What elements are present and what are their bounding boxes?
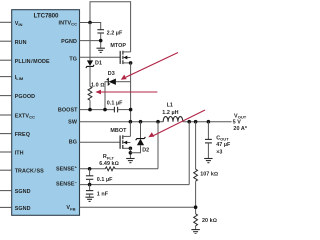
pin BG label bbox=[69, 140, 77, 146]
wire INTVCC net bbox=[80, 2, 131, 52]
svg-text:ILIM: ILIM bbox=[15, 75, 24, 81]
wire VFB net bbox=[80, 206, 196, 208]
svg-text:LTC7800: LTC7800 bbox=[34, 13, 59, 20]
annotation arrow to D3 bbox=[121, 53, 178, 80]
svg-text:RFLT: RFLT bbox=[103, 154, 115, 160]
svg-text:6.49 kΩ: 6.49 kΩ bbox=[99, 161, 118, 167]
node boost cap junction bbox=[129, 108, 133, 112]
node VFB junction bbox=[194, 205, 198, 209]
node VOUT-COUT junction bbox=[207, 120, 211, 124]
pin RUN label bbox=[15, 40, 27, 46]
svg-text:PGND: PGND bbox=[61, 39, 77, 45]
wire SENSE+ net bbox=[80, 122, 159, 169]
node SENSE+ cap junction bbox=[88, 167, 92, 171]
pin PGOOD label bbox=[15, 94, 35, 100]
svg-text:INTVCC: INTVCC bbox=[59, 20, 78, 26]
svg-text:D2: D2 bbox=[142, 148, 149, 154]
resistor 107k bbox=[194, 122, 218, 214]
wire VOUT rail bbox=[183, 121, 232, 123]
node BOOST-1ohm junction bbox=[88, 108, 92, 112]
node BOOST-D3 junction bbox=[103, 108, 107, 112]
capacitor 0.1uF boost bbox=[107, 100, 131, 112]
wire BG net bbox=[80, 141, 121, 143]
pin INTVCC label bbox=[59, 20, 78, 26]
wire ITH stub bbox=[0, 151, 12, 153]
node MTOP source junction bbox=[129, 61, 133, 65]
svg-text:0.1 µF: 0.1 µF bbox=[97, 177, 113, 183]
wire SENSE- net bbox=[80, 122, 190, 185]
svg-text:RUN: RUN bbox=[15, 40, 27, 46]
svg-text:FREQ: FREQ bbox=[15, 132, 30, 138]
resistor 20k bbox=[194, 214, 217, 230]
wire TG net bbox=[80, 56, 121, 58]
svg-text:1.2 µH: 1.2 µH bbox=[162, 110, 178, 116]
node PGND junction bbox=[99, 39, 103, 43]
capacitor 0.1uF sense bbox=[86, 169, 113, 185]
ground under MBOT bbox=[126, 159, 134, 163]
wire MBOT source to ground bbox=[129, 148, 131, 158]
resistor RFLT 6.49k bbox=[99, 154, 118, 171]
pin ITH label bbox=[15, 151, 24, 157]
node VOUT-divider junction bbox=[194, 120, 198, 124]
pin BOOST label bbox=[58, 108, 78, 114]
svg-text:MBOT: MBOT bbox=[110, 128, 127, 134]
node SW-SENSE+ junction bbox=[156, 120, 160, 124]
ground under COUT bbox=[204, 159, 212, 163]
wire EXTVCC stub bbox=[0, 114, 12, 116]
wire ILIM stub bbox=[0, 76, 12, 78]
annotation arrow to 1.0 Ohm bbox=[95, 90, 157, 94]
diode D1 bbox=[86, 23, 102, 87]
svg-text:EXTVCC: EXTVCC bbox=[15, 114, 35, 120]
svg-text:PLLIN/MODE: PLLIN/MODE bbox=[15, 59, 50, 65]
svg-text:20 A*: 20 A* bbox=[233, 126, 248, 132]
wire SGND2 stub bbox=[0, 206, 12, 208]
pin TRACK/SS label bbox=[15, 169, 44, 175]
capacitor COUT bbox=[205, 122, 231, 159]
svg-text:ITH: ITH bbox=[15, 151, 24, 157]
pin SENSE- label bbox=[56, 180, 78, 188]
wire SGND stub bbox=[0, 190, 12, 192]
svg-text:VFB: VFB bbox=[66, 205, 75, 211]
wire SW net bbox=[80, 121, 164, 123]
pin PGND label bbox=[61, 39, 77, 45]
node VOUT-SENSE- junction bbox=[187, 120, 191, 124]
pin PLLIN/MODE label bbox=[15, 59, 50, 65]
svg-text:1 nF: 1 nF bbox=[97, 191, 109, 197]
capacitor 2.2uF bbox=[97, 30, 123, 48]
node VOUT label bbox=[233, 113, 248, 132]
svg-text:D1: D1 bbox=[95, 60, 102, 66]
svg-text:TG: TG bbox=[69, 57, 77, 63]
pin FREQ label bbox=[15, 132, 30, 138]
svg-text:SW: SW bbox=[68, 120, 78, 126]
svg-text:BOOST: BOOST bbox=[58, 108, 78, 114]
op-amp U1 LTC7800 IC body bbox=[12, 10, 80, 216]
wire FREQ stub bbox=[0, 133, 12, 135]
svg-text:2.2 µF: 2.2 µF bbox=[107, 31, 123, 37]
ground under 2.2uF bbox=[97, 48, 105, 52]
svg-text:SGND: SGND bbox=[15, 206, 31, 212]
svg-text:SENSE−: SENSE− bbox=[56, 180, 78, 188]
wire RUN stub bbox=[0, 40, 12, 42]
pin SENSE+ label bbox=[56, 165, 78, 173]
transistor MBOT bbox=[110, 122, 130, 149]
node MBOT source junction bbox=[129, 147, 133, 151]
transistor MTOP bbox=[110, 43, 130, 64]
annotation arrow to D2 bbox=[148, 110, 205, 137]
capacitor 1nF bbox=[86, 185, 109, 198]
wire VIN stub bbox=[0, 21, 12, 23]
svg-text:TRACK/SS: TRACK/SS bbox=[15, 169, 44, 175]
node SW-D2 junction bbox=[139, 120, 143, 124]
node D2 return junction bbox=[129, 151, 133, 155]
svg-text:47 µF: 47 µF bbox=[216, 142, 231, 148]
wire PGND net bbox=[80, 40, 101, 42]
pin TG label bbox=[69, 57, 77, 63]
svg-text:SENSE+: SENSE+ bbox=[56, 165, 78, 173]
node SW-MBOT junction bbox=[129, 120, 133, 124]
svg-text:PGOOD: PGOOD bbox=[15, 94, 35, 100]
wire TRACK/SS stub bbox=[0, 169, 12, 171]
svg-text:20 kΩ: 20 kΩ bbox=[202, 218, 217, 224]
svg-text:107 kΩ: 107 kΩ bbox=[200, 172, 218, 178]
pin EXTVCC label bbox=[15, 114, 35, 120]
diode D3 bbox=[105, 71, 131, 110]
diode D2 bbox=[130, 122, 149, 154]
ground under 1nF bbox=[85, 197, 93, 201]
ground under 20k bbox=[191, 230, 199, 234]
svg-text:1.0 Ω: 1.0 Ω bbox=[91, 83, 104, 89]
svg-text:VIN: VIN bbox=[15, 21, 23, 27]
svg-text:5 V: 5 V bbox=[233, 120, 242, 126]
pin SW label bbox=[68, 120, 78, 126]
pin VFB label bbox=[66, 205, 75, 211]
svg-text:MTOP: MTOP bbox=[110, 43, 126, 49]
svg-text:SGND: SGND bbox=[15, 189, 31, 195]
pin VIN label bbox=[15, 21, 23, 27]
node SENSE- cap junction bbox=[88, 183, 92, 187]
pin SGND2 label bbox=[15, 206, 31, 212]
wire MTOP source to SW bbox=[130, 63, 132, 122]
wire PLLIN/MODE stub bbox=[0, 59, 12, 61]
inductor L1 bbox=[162, 103, 182, 122]
svg-text:0.1 µF: 0.1 µF bbox=[107, 100, 123, 106]
pin ILIM label bbox=[15, 75, 24, 81]
wire PGOOD stub bbox=[0, 95, 12, 97]
resistor 1.0 Ohm bbox=[88, 83, 104, 110]
svg-text:L1: L1 bbox=[167, 103, 173, 109]
svg-text:COUT: COUT bbox=[216, 135, 229, 141]
wire BOOST net bbox=[80, 109, 115, 111]
svg-text:×3: ×3 bbox=[216, 149, 222, 155]
svg-text:D3: D3 bbox=[108, 71, 115, 77]
svg-text:BG: BG bbox=[69, 140, 77, 146]
pin SGND label bbox=[15, 189, 31, 195]
node INTVCC junction bbox=[88, 21, 92, 25]
